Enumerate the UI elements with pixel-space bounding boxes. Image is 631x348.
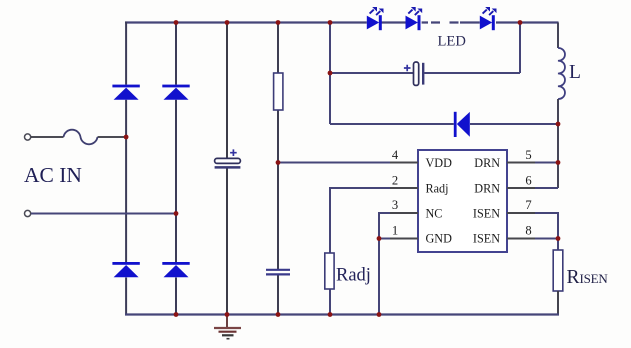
wire LED block left column xyxy=(329,22,331,125)
svg-text:ISEN: ISEN xyxy=(580,271,609,286)
terminal AC bottom xyxy=(25,210,31,216)
svg-text:NC: NC xyxy=(426,207,443,221)
diode D4 bridge bottom-right xyxy=(162,262,189,277)
wire inductor column top xyxy=(557,23,559,49)
wire pin2 Radj net xyxy=(330,188,418,316)
wire cap branch xyxy=(330,22,520,73)
svg-text:AC IN: AC IN xyxy=(24,163,82,187)
diode D8 freewheel xyxy=(454,112,470,137)
wire top rail xyxy=(125,21,559,23)
diode D1 bridge top-left xyxy=(112,85,139,100)
svg-text:4: 4 xyxy=(392,148,399,162)
svg-text:8: 8 xyxy=(525,224,531,238)
svg-text:R: R xyxy=(567,267,580,288)
svg-text:3: 3 xyxy=(392,198,398,212)
wire freewheel diode net xyxy=(330,123,558,125)
diode D3 bridge bottom-left xyxy=(112,262,139,277)
diode D2 bridge top-right xyxy=(162,85,189,100)
node junction dots xyxy=(124,20,561,317)
svg-text:7: 7 xyxy=(525,198,531,212)
svg-text:2: 2 xyxy=(392,174,398,188)
capacitor C2 xyxy=(266,270,290,275)
wire VDD pin4 net xyxy=(278,162,418,164)
fuse F1 xyxy=(64,130,98,145)
RISEN label xyxy=(567,267,609,288)
svg-text:Radj: Radj xyxy=(426,181,449,195)
svg-text:L: L xyxy=(569,62,581,83)
LED D5 xyxy=(367,7,384,30)
svg-text:ISEN: ISEN xyxy=(473,232,500,246)
pin stubs dark xyxy=(390,163,535,239)
inductor L1 xyxy=(558,48,565,99)
terminal AC top xyxy=(25,134,31,140)
wire pin7 ISEN net xyxy=(507,213,558,239)
svg-text:Radj: Radj xyxy=(336,266,371,286)
LED D6 xyxy=(406,7,423,30)
wire pin5 DRN net xyxy=(507,162,558,164)
ground xyxy=(214,316,241,339)
svg-text:DRN: DRN xyxy=(474,156,500,170)
wire AC bottom lead xyxy=(31,213,177,215)
wire bottom rail xyxy=(125,313,559,315)
IC U1 pin labels xyxy=(426,156,501,246)
wire inductor column bottom xyxy=(557,99,559,188)
wire left bridge column xyxy=(125,22,127,316)
svg-text:1: 1 xyxy=(392,224,398,238)
svg-text:6: 6 xyxy=(525,174,531,188)
wire resistor column xyxy=(277,22,279,316)
svg-text:LED: LED xyxy=(438,34,466,50)
svg-text:5: 5 xyxy=(525,148,531,162)
svg-text:ISEN: ISEN xyxy=(473,207,500,221)
IC U1 box xyxy=(418,150,507,252)
capacitor C1 electrolytic xyxy=(215,149,241,167)
wire second bridge column xyxy=(175,22,177,316)
capacitor C3 electrolytic parallel to LED xyxy=(404,62,423,85)
LED D7 xyxy=(480,7,497,30)
svg-text:GND: GND xyxy=(426,232,453,246)
wire pin1 GND net xyxy=(379,239,418,316)
resistor Radj xyxy=(325,253,334,289)
wire pin3 NC net xyxy=(379,213,418,239)
wire pin6 DRN net xyxy=(507,187,558,189)
wire AC top lead xyxy=(31,136,127,138)
resistor R1 xyxy=(274,73,283,110)
wire smoothing cap column xyxy=(226,22,228,316)
resistor RISEN xyxy=(553,250,563,316)
svg-text:VDD: VDD xyxy=(426,156,453,170)
wire LED dashes xyxy=(431,21,459,23)
svg-text:DRN: DRN xyxy=(474,181,500,195)
wire pin8 ISEN net xyxy=(507,239,558,251)
